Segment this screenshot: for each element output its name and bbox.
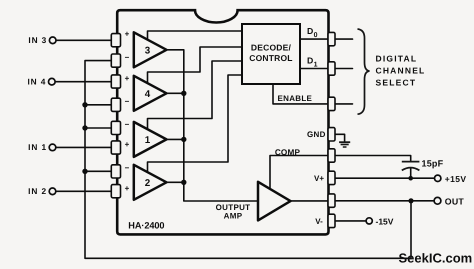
svg-text:CONTROL: CONTROL (249, 53, 292, 63)
svg-text:-15V: -15V (376, 216, 394, 226)
svg-text:+: + (125, 140, 130, 149)
svg-text:1: 1 (314, 62, 318, 69)
svg-text:OUT: OUT (445, 196, 465, 206)
svg-text:AMP: AMP (224, 211, 243, 220)
svg-text:D: D (307, 56, 313, 66)
svg-text:DIGITAL: DIGITAL (376, 53, 418, 63)
svg-text:−: − (125, 120, 130, 129)
svg-text:−: − (125, 97, 130, 106)
svg-text:DECODE/: DECODE/ (251, 43, 292, 53)
svg-text:IN 2: IN 2 (28, 186, 47, 196)
svg-text:V-: V- (315, 217, 323, 226)
svg-text:ENABLE: ENABLE (278, 94, 313, 103)
svg-text:V+: V+ (314, 174, 324, 183)
svg-text:+: + (125, 74, 130, 83)
svg-text:SeekIC.com: SeekIC.com (399, 250, 473, 265)
svg-text:2: 2 (145, 178, 151, 189)
svg-text:+: + (125, 29, 130, 38)
svg-text:COMP: COMP (275, 148, 301, 157)
svg-text:HA·2400: HA·2400 (128, 220, 164, 230)
svg-text:15pF: 15pF (422, 159, 444, 169)
svg-text:0: 0 (314, 32, 318, 39)
svg-text:CHANNEL: CHANNEL (376, 66, 426, 76)
svg-text:IN 4: IN 4 (27, 77, 46, 87)
svg-text:+15V: +15V (445, 174, 467, 184)
svg-text:GND: GND (307, 130, 326, 139)
svg-text:1: 1 (145, 135, 151, 146)
svg-text:+: + (125, 184, 130, 193)
svg-text:SELECT: SELECT (376, 78, 417, 88)
svg-text:D: D (307, 26, 313, 36)
svg-text:IN 3: IN 3 (28, 35, 47, 45)
svg-text:−: − (125, 53, 130, 62)
svg-text:3: 3 (145, 45, 151, 56)
svg-text:4: 4 (145, 89, 151, 100)
svg-text:IN 1: IN 1 (28, 142, 47, 152)
svg-text:−: − (125, 164, 130, 173)
